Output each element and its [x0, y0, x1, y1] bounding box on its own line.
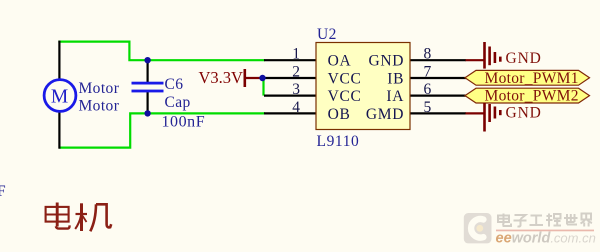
svg-text:GND: GND	[369, 53, 405, 70]
svg-text:Motor_PWM1: Motor_PWM1	[485, 70, 579, 87]
svg-text:Cap: Cap	[165, 94, 191, 111]
svg-text:OB: OB	[328, 106, 351, 123]
svg-text:5: 5	[424, 99, 432, 116]
svg-text:Motor_PWM2: Motor_PWM2	[485, 88, 579, 105]
svg-text:2: 2	[292, 64, 300, 81]
svg-text:100nF: 100nF	[162, 113, 206, 130]
svg-text:IA: IA	[386, 88, 404, 105]
svg-text:U2: U2	[317, 26, 337, 43]
svg-text:3: 3	[292, 81, 300, 98]
svg-text:L9110: L9110	[317, 133, 360, 150]
svg-text:8: 8	[424, 46, 432, 63]
svg-text:M: M	[51, 86, 68, 107]
svg-text:C6: C6	[165, 76, 184, 93]
svg-text:GND: GND	[506, 50, 542, 67]
svg-text:Motor: Motor	[79, 80, 120, 97]
svg-text:F: F	[0, 183, 6, 200]
svg-text:IB: IB	[387, 71, 404, 88]
svg-text:4: 4	[292, 99, 300, 116]
svg-text:GMD: GMD	[366, 106, 404, 123]
svg-text:Motor: Motor	[79, 98, 120, 115]
svg-text:7: 7	[424, 64, 432, 81]
svg-text:VCC: VCC	[328, 71, 362, 88]
svg-text:V3.3V: V3.3V	[199, 68, 244, 87]
svg-text:6: 6	[424, 81, 432, 98]
svg-text:OA: OA	[328, 53, 352, 70]
svg-text:VCC: VCC	[328, 88, 362, 105]
svg-text:eeworld.com.cn: eeworld.com.cn	[496, 230, 596, 246]
svg-text:1: 1	[292, 46, 300, 63]
svg-text:GND: GND	[506, 105, 542, 122]
